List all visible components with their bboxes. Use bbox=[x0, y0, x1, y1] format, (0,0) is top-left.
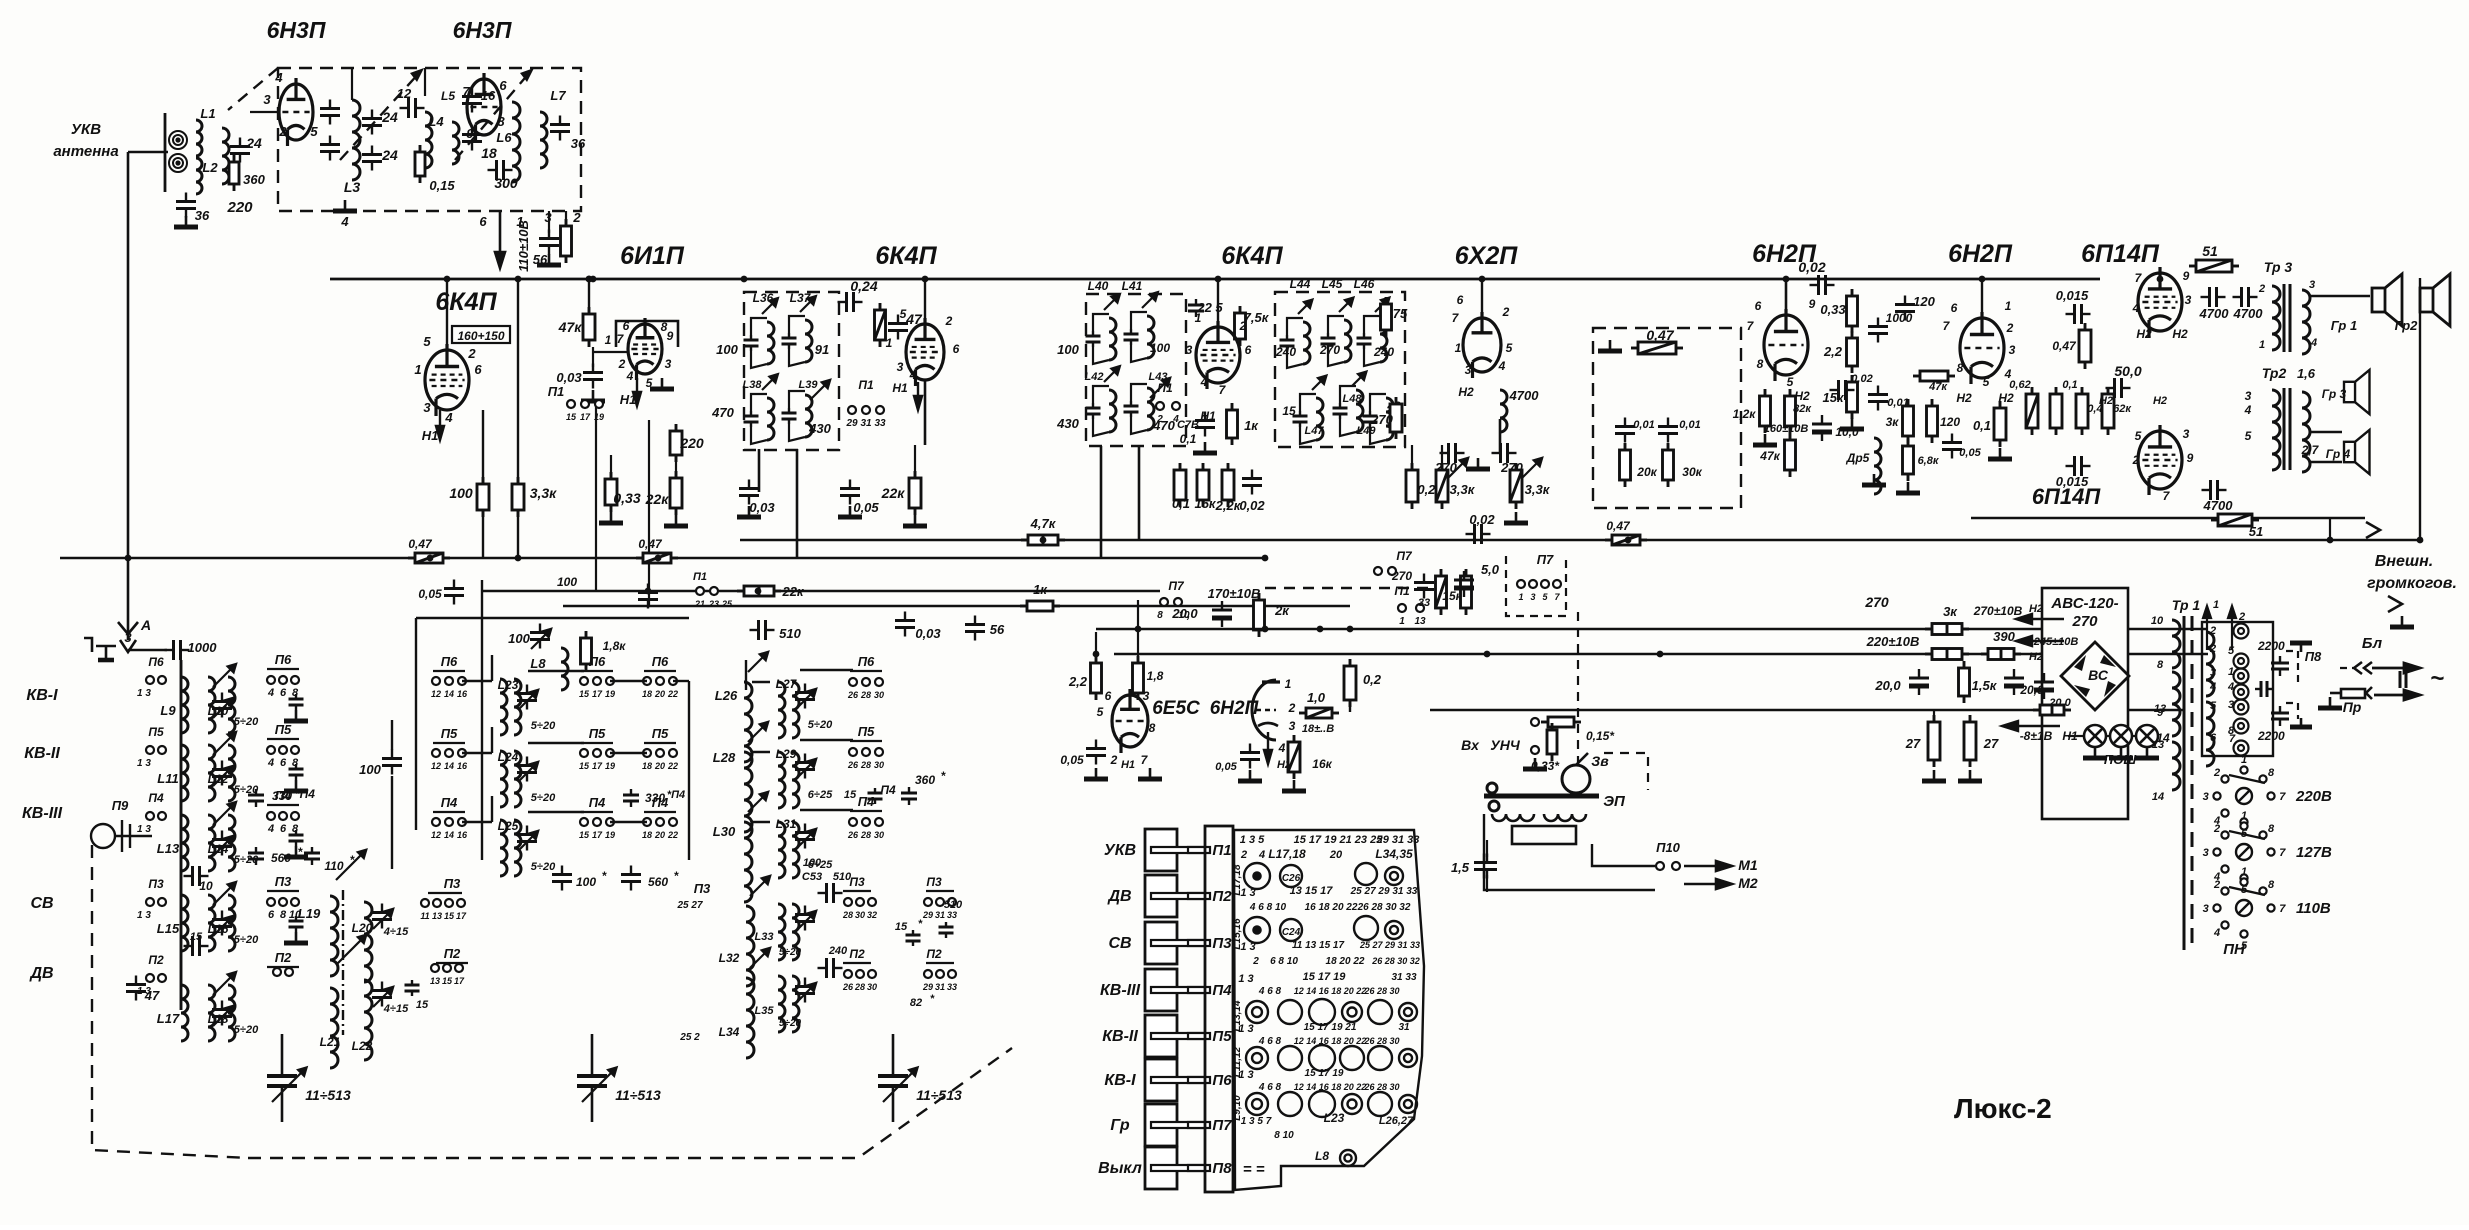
wire bbox=[267, 804, 299, 806]
wire bbox=[2329, 518, 2331, 540]
wire bbox=[2132, 735, 2136, 737]
switch П5 bbox=[580, 749, 588, 757]
svg-text:КВ-I: КВ-I bbox=[26, 687, 58, 704]
svg-text:ДВ: ДВ bbox=[1106, 888, 1131, 905]
wafer bbox=[1355, 863, 1377, 885]
trimmer L25 arrow bbox=[518, 831, 538, 851]
switch П6 bbox=[580, 677, 588, 685]
trimmer L10 bbox=[212, 693, 232, 718]
svg-text:20: 20 bbox=[654, 761, 665, 771]
switch П5 bbox=[875, 748, 883, 756]
svg-text:3: 3 bbox=[1289, 719, 1296, 733]
switch П4 bbox=[445, 818, 453, 826]
svg-text:12 14 16 18 20 22: 12 14 16 18 20 22 bbox=[1294, 986, 1367, 996]
switch П2 bbox=[455, 964, 463, 972]
svg-text:L7: L7 bbox=[550, 88, 566, 103]
resistor 4,7к bbox=[1021, 535, 1065, 545]
svg-text:2: 2 bbox=[2213, 767, 2220, 779]
tank L37 wire bbox=[789, 316, 805, 333]
trimmer arrow bbox=[582, 1067, 617, 1102]
svg-text:110В: 110В bbox=[2296, 900, 2331, 917]
trimmer arrow bbox=[800, 296, 816, 312]
tube half cathode bbox=[1258, 723, 1278, 726]
wire motor bbox=[1592, 844, 1655, 866]
svg-text:П8: П8 bbox=[1212, 1160, 1232, 1177]
coil L29 bbox=[778, 752, 785, 808]
svg-text:СВ: СВ bbox=[1108, 935, 1131, 952]
svg-text:7: 7 bbox=[462, 84, 470, 99]
switch П2 stub bbox=[146, 974, 154, 982]
svg-text:L31: L31 bbox=[776, 817, 797, 831]
dashed gang arrow bbox=[455, 72, 530, 160]
wire bbox=[610, 455, 612, 479]
trimmer arrow bbox=[336, 850, 366, 880]
coil L27 bbox=[778, 682, 785, 738]
svg-text:L44: L44 bbox=[1290, 277, 1311, 291]
wire bbox=[673, 680, 689, 682]
svg-text:8 10: 8 10 bbox=[1274, 1130, 1294, 1141]
switch П3 bbox=[279, 898, 287, 906]
dashed link bbox=[1604, 753, 1648, 790]
wire bank B row bbox=[752, 681, 770, 683]
svg-text:24: 24 bbox=[381, 147, 398, 163]
wire bbox=[1576, 753, 1588, 765]
svg-text:ПН: ПН bbox=[2223, 941, 2246, 958]
svg-text:30: 30 bbox=[874, 690, 884, 700]
svg-text:L27: L27 bbox=[776, 677, 798, 691]
capacitor 270 bbox=[1492, 443, 1517, 463]
svg-text:УКВ: УКВ bbox=[71, 121, 101, 138]
svg-text:9: 9 bbox=[2157, 707, 2164, 719]
trimmer 100 arrow bbox=[531, 629, 551, 649]
svg-text:4: 4 bbox=[267, 757, 274, 769]
tank L48 coil bbox=[1356, 390, 1363, 432]
svg-text:9: 9 bbox=[667, 329, 674, 343]
arrow cathode 6Н2П bbox=[1264, 732, 1272, 764]
svg-text:С26: С26 bbox=[1282, 873, 1301, 884]
switch П4 bbox=[580, 818, 588, 826]
svg-text:3,3к: 3,3к bbox=[1525, 482, 1551, 497]
wire bank C top bbox=[416, 617, 689, 619]
coax connector bbox=[169, 131, 187, 149]
lamp Н1 bbox=[2084, 725, 2106, 747]
wafer bbox=[1368, 1046, 1392, 1070]
wafer bbox=[1342, 1002, 1362, 1022]
svg-text:П7: П7 bbox=[1396, 549, 1413, 563]
coil L25b bbox=[514, 820, 521, 876]
П8 dashed bbox=[2286, 651, 2298, 683]
svg-text:0,33: 0,33 bbox=[613, 490, 640, 506]
svg-text:7: 7 bbox=[2279, 847, 2286, 859]
wire bbox=[491, 727, 493, 753]
node on anode bus bbox=[515, 276, 522, 283]
svg-text:П3: П3 bbox=[444, 876, 461, 891]
capacitor 12 bbox=[400, 98, 425, 118]
wire L26 top bbox=[745, 660, 747, 690]
wire bank C right bbox=[688, 681, 690, 860]
switch П2 bbox=[431, 964, 439, 972]
capacitor 47 bbox=[888, 315, 908, 340]
П9 phone jack bbox=[91, 820, 152, 852]
svg-text:36: 36 bbox=[195, 208, 210, 223]
svg-text:0,05: 0,05 bbox=[1060, 753, 1084, 767]
selector bar bbox=[2229, 775, 2265, 783]
resistor 2,2к bbox=[1222, 463, 1234, 507]
wafer bbox=[1399, 1049, 1417, 1067]
switch П1 contact bbox=[862, 406, 870, 414]
svg-text:L39: L39 bbox=[799, 379, 819, 391]
svg-text:0,62: 0,62 bbox=[2009, 379, 2030, 391]
speaker Гр1 bbox=[2372, 274, 2402, 326]
svg-text:1,5к: 1,5к bbox=[1972, 678, 1998, 693]
svg-text:1 3: 1 3 bbox=[137, 688, 151, 699]
resistor 6,8к bbox=[1903, 439, 1914, 481]
electrolytic 20,0 bbox=[1212, 601, 1232, 627]
switch П3 bbox=[844, 898, 852, 906]
resistor 51 bbox=[2211, 514, 2259, 526]
coil arrow bbox=[213, 882, 236, 905]
svg-text:4: 4 bbox=[444, 410, 453, 425]
wire L19 core bbox=[342, 890, 344, 1035]
switch П2b bbox=[948, 970, 956, 978]
switch П5 bbox=[432, 749, 440, 757]
switch П6 bbox=[875, 678, 883, 686]
svg-text:П6: П6 bbox=[589, 654, 606, 669]
svg-text:100: 100 bbox=[359, 762, 381, 777]
svg-text:П5: П5 bbox=[148, 725, 164, 739]
tank L47 wire bbox=[1300, 427, 1316, 444]
resistor 3к bbox=[1903, 399, 1914, 443]
svg-text:L5: L5 bbox=[441, 89, 455, 103]
wafer bbox=[1342, 1094, 1362, 1114]
svg-text:26 28 30 32: 26 28 30 32 bbox=[1371, 956, 1420, 966]
coil Тр1 w8-9 bbox=[2172, 672, 2180, 736]
selector contact 2 bbox=[2221, 775, 2228, 782]
coil Др5 bbox=[1874, 438, 1881, 494]
switch П5 bbox=[445, 749, 453, 757]
node bus 629 bbox=[1135, 626, 1142, 633]
switch П4 bbox=[849, 818, 857, 826]
ground bbox=[333, 200, 357, 211]
svg-text:9: 9 bbox=[2187, 451, 2194, 465]
switch panel strip bbox=[1205, 826, 1233, 1192]
coil L35b bbox=[792, 976, 799, 1032]
resistor 2,2 bbox=[1091, 656, 1102, 700]
trimmer L10 arrow bbox=[213, 698, 233, 718]
svg-text:П2: П2 bbox=[1212, 888, 1232, 905]
switch П7 bbox=[1160, 598, 1168, 606]
capacitor 15 bbox=[184, 936, 209, 956]
switch П3 bbox=[868, 898, 876, 906]
node on anode bus bbox=[2157, 276, 2164, 283]
svg-text:18: 18 bbox=[642, 761, 652, 771]
svg-text:2: 2 bbox=[945, 314, 953, 328]
node on AGC bus bbox=[655, 555, 662, 562]
capacitor 50,0 bbox=[2106, 378, 2131, 398]
coil L8 bbox=[561, 648, 568, 690]
svg-text:4: 4 bbox=[909, 368, 917, 382]
wire 6Н2П anode bbox=[1785, 279, 1788, 313]
wire bank C row bbox=[528, 742, 584, 744]
svg-text:Н2: Н2 bbox=[1956, 391, 1972, 405]
resistor 0,1 bbox=[1994, 401, 2006, 447]
svg-text:0,1: 0,1 bbox=[1180, 432, 1197, 446]
svg-text:2: 2 bbox=[2258, 283, 2265, 295]
switch key П1 bbox=[1145, 829, 1177, 871]
capacitor bbox=[289, 764, 304, 780]
tube 6П14П lower bbox=[2138, 425, 2182, 495]
ground bbox=[1238, 770, 1262, 781]
wire bbox=[267, 966, 299, 968]
svg-text:4: 4 bbox=[1278, 741, 1286, 755]
svg-text:26 28 30: 26 28 30 bbox=[1363, 1036, 1399, 1046]
resistor bbox=[1925, 649, 1969, 660]
tube 6Н2П first bbox=[1764, 309, 1808, 381]
resistor 3,3к bbox=[512, 477, 524, 517]
svg-text:М2: М2 bbox=[1738, 875, 1758, 891]
coil Тр1 w13-14 bbox=[2172, 742, 2180, 790]
resistor 20к bbox=[1620, 443, 1631, 487]
svg-text:160±10В: 160±10В bbox=[1764, 423, 1809, 435]
wire bbox=[2106, 735, 2110, 737]
svg-text:УКВ: УКВ bbox=[1104, 842, 1136, 859]
resistor 27 bbox=[1964, 715, 1976, 767]
svg-text:47к: 47к bbox=[558, 319, 583, 335]
svg-text:33: 33 bbox=[947, 982, 957, 992]
node bbox=[586, 276, 593, 283]
tank L46 wire bbox=[1364, 349, 1380, 366]
svg-text:1: 1 bbox=[1399, 616, 1405, 627]
svg-text:КВ-I: КВ-I bbox=[1104, 1072, 1136, 1089]
trimmer L29 arrow bbox=[796, 759, 816, 779]
svg-text:0,03: 0,03 bbox=[556, 370, 582, 385]
svg-text:L21: L21 bbox=[320, 1035, 341, 1049]
trimmer arrow bbox=[1339, 298, 1353, 312]
tank L41 wire bbox=[1131, 312, 1147, 329]
coil Тр1 sec a bbox=[2206, 632, 2214, 696]
svg-text:330: 330 bbox=[645, 791, 665, 805]
switch П2b bbox=[924, 970, 932, 978]
wire bbox=[433, 742, 465, 744]
trimmer L25 bbox=[517, 826, 537, 851]
svg-text:5: 5 bbox=[900, 307, 907, 321]
svg-text:Н2: Н2 bbox=[2136, 327, 2152, 341]
wire L43 down bbox=[1138, 446, 1141, 540]
svg-text:П2: П2 bbox=[275, 950, 292, 965]
switch П5 bbox=[291, 746, 299, 754]
svg-text:12: 12 bbox=[431, 830, 441, 840]
svg-text:П5: П5 bbox=[589, 726, 606, 741]
svg-text:3: 3 bbox=[2183, 427, 2190, 441]
svg-text:7: 7 bbox=[2279, 791, 2286, 803]
selector contact 1 bbox=[2240, 766, 2247, 773]
tank L38 capacitor bbox=[744, 411, 759, 427]
coil L18b bbox=[228, 985, 235, 1041]
svg-text:3,3к: 3,3к bbox=[530, 485, 557, 501]
svg-text:28: 28 bbox=[860, 690, 871, 700]
svg-text:33: 33 bbox=[947, 910, 957, 920]
wire bbox=[446, 279, 448, 350]
svg-text:КВ-II: КВ-II bbox=[24, 745, 60, 762]
capacitor bbox=[289, 694, 304, 710]
tube 6К4П second bbox=[906, 318, 944, 386]
node bbox=[1262, 555, 1269, 562]
svg-text:5: 5 bbox=[2135, 429, 2142, 443]
svg-text:4: 4 bbox=[2132, 301, 2140, 315]
tank L49 capacitor bbox=[1363, 411, 1378, 427]
switch key bar П7 bbox=[1151, 1122, 1205, 1128]
svg-text:6И1П: 6И1П bbox=[620, 242, 685, 270]
svg-text:22к: 22к bbox=[881, 485, 906, 501]
ground bbox=[2109, 747, 2133, 758]
tank L40 wire bbox=[1093, 314, 1109, 331]
svg-text:27: 27 bbox=[1983, 736, 1999, 751]
svg-text:ПОШ: ПОШ bbox=[2104, 752, 2136, 767]
wire bank B row bbox=[800, 669, 853, 671]
svg-text:0,47: 0,47 bbox=[2052, 339, 2077, 353]
resistor 0,2 bbox=[1344, 659, 1356, 707]
svg-text:6,8к: 6,8к bbox=[1918, 455, 1940, 467]
resistor 62к bbox=[2102, 387, 2114, 435]
coil Тр3 primary bbox=[2272, 286, 2280, 350]
switch П4 bbox=[656, 818, 664, 826]
tank L36 capacitor bbox=[744, 335, 759, 351]
svg-text:1 3: 1 3 bbox=[1238, 1069, 1253, 1081]
switch key П8 bbox=[1145, 1147, 1177, 1189]
capacitor 1000 bbox=[1868, 318, 1888, 343]
trimmer arrow bbox=[762, 298, 778, 314]
svg-text:L48: L48 bbox=[1343, 393, 1363, 405]
selector contact 7 bbox=[2267, 848, 2274, 855]
node bus 629 bbox=[1317, 626, 1324, 633]
trimmer L12 bbox=[212, 761, 232, 786]
svg-text:0,47: 0,47 bbox=[1646, 327, 1674, 343]
svg-text:П6: П6 bbox=[858, 654, 875, 669]
svg-text:2: 2 bbox=[2209, 643, 2216, 655]
switch П5 bbox=[267, 746, 275, 754]
electrolytic 10,0 bbox=[1812, 415, 1832, 441]
wafer L34,35 bbox=[1385, 867, 1403, 885]
switch П7 contact bbox=[1517, 580, 1525, 588]
selector contact 3 bbox=[2213, 792, 2220, 799]
wafer bbox=[1368, 1000, 1392, 1024]
wire bbox=[2068, 735, 2084, 737]
coil Тр3 secondary bbox=[2302, 290, 2310, 354]
svg-text:30: 30 bbox=[874, 760, 884, 770]
wire bbox=[1349, 703, 1351, 712]
resistor 390 bbox=[1981, 649, 2021, 660]
svg-text:5÷20: 5÷20 bbox=[234, 716, 259, 728]
wire rail 3 bbox=[1430, 709, 2042, 711]
tank L39 coil bbox=[805, 395, 812, 437]
tank L48 capacitor bbox=[1333, 403, 1348, 419]
svg-text:L47: L47 bbox=[1305, 425, 1325, 437]
switch П3 bbox=[433, 899, 441, 907]
ground bbox=[1138, 768, 1162, 779]
svg-text:51: 51 bbox=[2249, 524, 2263, 539]
wire bbox=[581, 742, 613, 744]
svg-text:6К4П: 6К4П bbox=[435, 288, 497, 316]
wire bbox=[1411, 445, 1413, 470]
svg-text:15 17 19 21: 15 17 19 21 bbox=[1304, 1022, 1357, 1033]
trimmer L33 arrow bbox=[796, 911, 816, 931]
electrolytic 20,0 bbox=[1909, 669, 1929, 695]
tank L42 wire bbox=[1093, 386, 1109, 403]
svg-text:Гр2: Гр2 bbox=[2395, 318, 2419, 333]
wire bbox=[424, 68, 426, 96]
svg-text:2,2: 2,2 bbox=[1068, 674, 1088, 689]
switch П1 contact bbox=[567, 400, 575, 408]
trimmer arrow bbox=[1448, 458, 1468, 478]
svg-text:6: 6 bbox=[1755, 299, 1762, 313]
resistor 0,1 bbox=[1174, 463, 1186, 507]
capacitor 0,03 bbox=[583, 364, 603, 389]
capacitor 560 bbox=[248, 847, 264, 865]
svg-text:4700: 4700 bbox=[2203, 498, 2234, 513]
switch П6 bbox=[267, 676, 275, 684]
switch П1 bbox=[1156, 402, 1164, 410]
coil arrow bbox=[213, 802, 236, 825]
svg-text:15: 15 bbox=[579, 761, 590, 771]
svg-text:6: 6 bbox=[2210, 732, 2217, 744]
node on anode bus bbox=[741, 276, 748, 283]
svg-text:4: 4 bbox=[2209, 681, 2216, 693]
switch П4 bbox=[669, 818, 677, 826]
svg-text:9: 9 bbox=[466, 126, 474, 141]
node on anode bus bbox=[444, 276, 451, 283]
wire bbox=[850, 740, 882, 742]
trimmer arrow bbox=[1104, 294, 1120, 310]
coil L35 bbox=[778, 976, 785, 1032]
switch П5 stub bbox=[146, 746, 154, 754]
svg-text:0,05: 0,05 bbox=[418, 587, 442, 601]
tube 6К4П third bbox=[1196, 321, 1240, 389]
svg-text:4700: 4700 bbox=[2199, 306, 2230, 321]
trimmer arrow bbox=[1298, 300, 1312, 314]
tube 6Н2П half bbox=[1252, 680, 1276, 740]
switch П1 contact bbox=[848, 406, 856, 414]
coil L1 bbox=[196, 120, 202, 156]
selector contact 8 bbox=[2259, 887, 2266, 894]
switch П7 bbox=[1374, 567, 1382, 575]
svg-text:24: 24 bbox=[245, 135, 262, 151]
svg-text:19: 19 bbox=[605, 689, 615, 699]
wire bbox=[2159, 272, 2162, 279]
svg-text:17: 17 bbox=[592, 830, 603, 840]
svg-text:2: 2 bbox=[2132, 453, 2140, 467]
wire cathode 6К4П2 bbox=[924, 380, 927, 445]
svg-text:ДВ: ДВ bbox=[28, 965, 53, 982]
svg-text:11 13 15 17: 11 13 15 17 bbox=[1292, 940, 1345, 951]
switch П4 bbox=[432, 818, 440, 826]
tank L41 coil bbox=[1147, 316, 1154, 358]
svg-text:560: 560 bbox=[271, 851, 291, 865]
coil L34 bbox=[746, 978, 754, 1058]
svg-text:4700: 4700 bbox=[1509, 388, 1540, 403]
switch П6 bbox=[279, 676, 287, 684]
resistor 3,3к bbox=[1510, 463, 1522, 509]
wire bank C row bbox=[462, 680, 492, 682]
svg-text:П1: П1 bbox=[693, 571, 707, 583]
svg-text:L1: L1 bbox=[200, 106, 215, 121]
selector bar bbox=[2229, 887, 2265, 895]
coil Тр2 secondary bbox=[2302, 392, 2310, 472]
node on anode bus bbox=[922, 276, 929, 283]
coil L21 bbox=[330, 988, 338, 1068]
coil L13 bbox=[181, 815, 188, 871]
svg-text:4: 4 bbox=[267, 823, 274, 835]
svg-text:L23: L23 bbox=[498, 678, 519, 692]
